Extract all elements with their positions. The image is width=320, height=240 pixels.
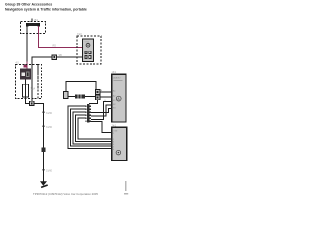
svg-text:RD: RD <box>53 44 57 47</box>
ground symbol G <box>40 181 47 186</box>
nav unit GPS circle icon <box>86 43 90 47</box>
fuse box dashed extension <box>38 65 42 99</box>
wire: black corner down into fuse box <box>32 57 33 105</box>
socket terminal tick <box>31 18 34 21</box>
fuse F symbol <box>23 84 29 97</box>
svg-text:15/1: 15/1 <box>34 19 39 22</box>
wire: antenna loop down to connector <box>96 81 97 90</box>
svg-text:74/1: 74/1 <box>112 124 117 127</box>
wire: color-change maroon segment to fuse box <box>27 62 28 70</box>
svg-text:74/2: 74/2 <box>77 33 82 36</box>
connector on ground wire <box>41 148 45 153</box>
wire: long ground vertical <box>43 103 44 182</box>
svg-text:TP3970112 (C3970112) Volvo Ca: TP3970112 (C3970112) Volvo Car Corporati… <box>33 192 98 196</box>
display module B box 74/1 <box>112 127 127 160</box>
wire: ferrite to connector column <box>85 96 95 97</box>
wire: socket supply maroon down <box>38 26 39 48</box>
wire: lower square to module A <box>100 97 112 98</box>
antenna connector box left <box>64 92 69 99</box>
connector square on ground wire <box>30 101 34 105</box>
svg-text:AUDIO: AUDIO <box>113 77 120 80</box>
wire bundle: bar right pin 3 to module A <box>91 109 112 113</box>
wire: lower square stub to inline connector <box>97 100 98 104</box>
wire color label tick maroon <box>23 64 26 67</box>
wire tick label 1 <box>42 111 44 113</box>
inline connector C on black wire <box>52 55 57 60</box>
wire: relay to fuse <box>25 80 26 85</box>
relay element inside fuse box <box>20 69 31 80</box>
wire bundle: bar right pin 2 to module A <box>91 105 112 116</box>
nav unit connector glyphs <box>85 51 88 54</box>
svg-text:31/60: 31/60 <box>46 169 53 172</box>
wire: black horizontal to portable device <box>32 57 84 58</box>
wire: module A bottom to module B top <box>91 121 112 132</box>
svg-text:31/60: 31/60 <box>46 112 53 115</box>
wire bundle: bar left pin 5 to module B <box>78 118 112 139</box>
nav unit body <box>83 39 94 62</box>
portable navigation unit dashed box 74/2 <box>77 36 101 64</box>
wire: antenna loop horizontal <box>65 81 96 82</box>
page number dash <box>124 193 128 195</box>
audio module A box 16/1 <box>112 74 126 122</box>
wire: coax to ferrite <box>68 96 75 97</box>
module A circle symbol <box>116 96 121 101</box>
wire: socket ground stub black down <box>27 26 28 62</box>
wire bundle: bar left pin 1 to module B <box>68 106 111 148</box>
svg-text:Navigation system & Traffic in: Navigation system & Traffic information,… <box>5 8 87 12</box>
svg-text:31/60: 31/60 <box>46 126 53 129</box>
wire bundle: bar right pin 1 to module A <box>91 102 112 120</box>
wire: maroon horizontal to portable device <box>38 47 83 48</box>
wire: upper square to module A <box>100 92 112 93</box>
connector square upper <box>95 90 100 95</box>
wire tick label 2 <box>42 125 44 127</box>
svg-text:SB: SB <box>59 54 63 57</box>
inline connector bar <box>87 104 90 123</box>
page number mark vertical <box>125 181 127 191</box>
wire bundle: bar left pin 2 to module B <box>71 109 112 146</box>
wire: horizontal to ground drop <box>25 103 44 104</box>
svg-text:Group 39 Other Accessories: Group 39 Other Accessories <box>5 3 52 7</box>
svg-text:7,5A: 7,5A <box>30 87 35 90</box>
wire bundle: bar left pin 3 to module B <box>73 112 112 144</box>
wire: fuse bottom down <box>25 97 26 104</box>
wire: antenna loop up <box>65 81 66 92</box>
svg-text:16/1: 16/1 <box>112 71 117 74</box>
central electronic fuse box dashed 4/1 <box>16 65 39 99</box>
ferrite / screen marker <box>75 94 85 98</box>
module B circle symbol <box>116 150 121 155</box>
socket element bar <box>26 23 40 26</box>
wire bundle: bar left pin 4 to module B <box>75 115 111 141</box>
12V accessory socket dashed box 15/1 <box>21 22 46 34</box>
connector square lower <box>95 95 100 100</box>
